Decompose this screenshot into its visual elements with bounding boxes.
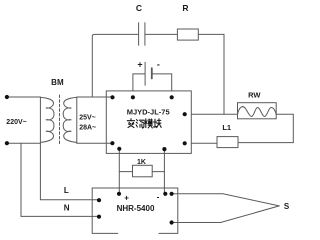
svg-text:28A~: 28A~ (79, 124, 96, 131)
AC module U1 box (106, 91, 191, 153)
node 220V top terminal (5, 95, 9, 99)
svg-text:-: - (157, 59, 160, 69)
capacitor C plates (138, 23, 140, 46)
svg-text:-: - (157, 192, 160, 201)
svg-text:1K: 1K (137, 159, 146, 166)
svg-text:C: C (136, 3, 142, 13)
wire primary-to-L vertical and L horizontal (40, 97, 99, 200)
svg-text:S: S (284, 202, 290, 211)
node module right upper (183, 112, 187, 116)
label 交流模块 (drawn strokes) (127, 119, 161, 128)
node NHR N input (97, 215, 101, 219)
wire 220V bottom lead (7, 142, 41, 144)
transformer BM secondary winding bumps (63, 97, 76, 142)
node NHR plus (117, 192, 121, 196)
wire R to corner and drop to RW line (198, 34, 224, 114)
svg-text:BM: BM (51, 78, 64, 87)
wire module bottom left drop (118, 149, 120, 194)
node NHR L input (97, 198, 101, 202)
node module top battery-right (170, 95, 174, 99)
hanzi jiao (127, 119, 134, 128)
node module left bottom (110, 141, 114, 145)
wire N drop and N horizontal (21, 143, 99, 216)
svg-text:N: N (64, 204, 70, 213)
svg-text:25V~: 25V~ (79, 115, 96, 122)
controller NHR-5400 box (bottom edge has gap) (92, 188, 178, 233)
lamp L1 body (217, 137, 238, 148)
thermocouple probe S bottom edge (172, 206, 280, 223)
node 220V bottom terminal (5, 141, 9, 145)
resistor 1K leads (119, 171, 132, 173)
node module right lower (183, 141, 187, 145)
heater RW body (238, 103, 277, 119)
svg-text:L: L (64, 186, 69, 195)
svg-text:+: + (124, 193, 129, 202)
heater RW wave (238, 107, 277, 117)
resistor R body (177, 29, 198, 40)
wire C to R (145, 33, 178, 35)
wire battery left riser (133, 74, 145, 91)
wire battery right riser (152, 74, 172, 91)
wire secondary bottom to module (77, 142, 113, 144)
wire RC branch riser (92, 34, 138, 97)
svg-text:L1: L1 (222, 123, 231, 132)
wire secondary top to module (77, 96, 113, 98)
node module bottom left (117, 147, 121, 151)
svg-text:MJYD-JL-75: MJYD-JL-75 (127, 107, 170, 116)
resistor 1K body (133, 165, 153, 177)
node module top-left (110, 95, 114, 99)
thermocouple probe S top edge (172, 194, 280, 206)
svg-text:RW: RW (248, 90, 261, 99)
svg-text:R: R (182, 3, 188, 13)
node NHR probe bottom (170, 220, 174, 224)
wire 220V top lead (7, 96, 41, 98)
transformer core (dashed) (59, 95, 61, 145)
node module top battery- left (131, 95, 135, 99)
wire module to L1 (191, 142, 217, 144)
battery short plate (151, 68, 153, 78)
svg-text:220V~: 220V~ (6, 119, 26, 126)
svg-text:+: + (137, 60, 142, 70)
hanzi mo (144, 119, 152, 128)
wire module bottom right drop (163, 149, 165, 194)
wire module to RW (191, 113, 237, 115)
hanzi kuai (153, 119, 161, 128)
node NHR probe top (170, 192, 174, 196)
wire RW right to L1 right (238, 114, 293, 142)
battery long plate (144, 62, 146, 85)
svg-text:NHR-5400: NHR-5400 (117, 204, 155, 213)
node NHR minus (163, 192, 167, 196)
hanzi liu (136, 120, 144, 128)
transformer BM primary winding (41, 97, 54, 142)
transformer BM secondary winding lead line (76, 97, 78, 143)
node module bottom right (162, 147, 166, 151)
